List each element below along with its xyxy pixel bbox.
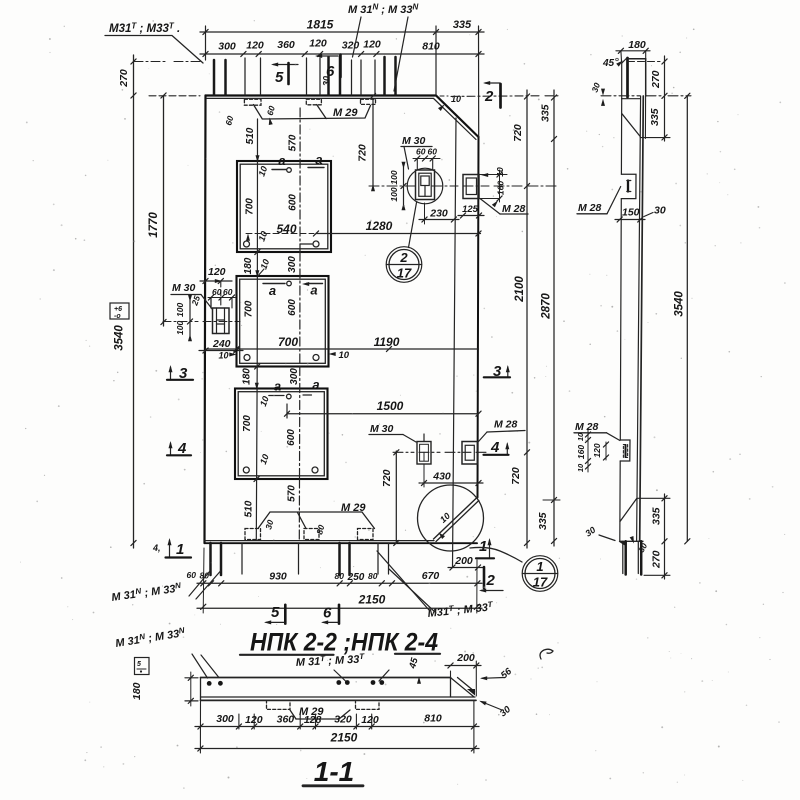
svg-text:200: 200 [456,652,475,664]
label 60 rotated right of box1 with arrow [265,105,277,125]
svg-text:4: 4 [490,439,500,456]
vertical centerline 600-series dashdot [298,108,301,540]
svg-text:570: 570 [288,134,299,151]
label 45 section [407,656,421,684]
svg-text:335: 335 [651,507,663,525]
dimension 150 30 side view [615,205,666,223]
opening square 2 [237,276,329,367]
label M28 upper right [480,199,528,216]
section mark 3 right [484,363,510,380]
svg-text:180: 180 [131,682,143,700]
svg-text:700: 700 [278,335,298,349]
centerline through M30 M28 [369,185,556,187]
svg-text:17: 17 [533,575,548,590]
svg-text:3540: 3540 [674,291,686,317]
svg-text:4,: 4, [152,543,161,553]
dimension line 335 2870 335 right [537,90,560,546]
svg-text:80: 80 [314,524,326,536]
labels between square1 and square2 [243,256,298,276]
section mark 4 left [167,440,191,457]
centerline left M30 [163,321,240,323]
section mark 5 top [271,63,298,87]
svg-text:2: 2 [484,88,494,105]
svg-text:1770: 1770 [148,212,160,238]
detail circle bottom right corner [418,485,484,551]
svg-text:M 28: M 28 [502,203,526,215]
dimension 230 [419,203,459,224]
svg-text:335: 335 [537,512,549,530]
dimension 3540 side view [674,93,690,544]
svg-text:5: 5 [275,69,284,86]
svg-text:270: 270 [118,69,130,88]
svg-text:17: 17 [397,266,412,281]
svg-text:335: 335 [453,19,472,31]
label M28 side view lower [574,421,620,441]
svg-text:30: 30 [498,704,514,720]
lower M28 embed [462,442,478,465]
svg-text:M 31N ; M 33N: M 31N ; M 33N [111,581,183,604]
section mark 2 bottom [479,567,503,593]
svg-text:128: 128 [304,714,322,726]
side view bottom edge and bars [620,541,643,574]
dimension row 300 120 360 120 320 120 810 [200,38,484,57]
svg-text:240: 240 [212,338,231,350]
rebar dots section 1-1 [207,680,384,686]
svg-text:10: 10 [451,94,461,104]
M29 anchor boxes dashed under top edge [244,99,375,105]
side view bottom slope [620,499,637,522]
section mark 3 left [167,365,193,382]
datum box symbol left [110,303,129,320]
svg-text:300: 300 [287,256,298,273]
svg-text:3540: 3540 [114,325,126,351]
svg-text:1: 1 [536,559,543,574]
dimension 180 section [131,672,198,706]
dimension 720 near square3 [381,450,399,546]
section 1-1 strip outline [201,678,477,701]
svg-text:300: 300 [216,713,234,725]
svg-text:10: 10 [258,258,271,271]
rebar bars on top edge, thin [245,58,375,95]
svg-text:10: 10 [576,432,585,441]
svg-text:M 28: M 28 [575,421,599,433]
label M31T M33T section [295,652,389,681]
svg-text:M 29: M 29 [341,502,366,514]
opening square 1 [237,161,331,252]
svg-text:M31T ; M 33T: M31T ; M 33T [427,600,495,620]
svg-text:180: 180 [242,368,253,385]
svg-text:a: a [278,153,285,168]
M29 anchor boxes dashed bottom [245,529,373,540]
dimension 200 section [445,652,481,696]
svg-text:M 29: M 29 [333,107,358,119]
label 56 section [480,666,515,682]
vertical line 700-series through squares [254,119,260,540]
svg-text:1-1: 1-1 [314,756,354,787]
svg-text:80: 80 [368,571,378,581]
svg-text:300: 300 [218,41,236,53]
svg-text:570: 570 [287,485,298,502]
svg-text:30: 30 [322,76,332,86]
svg-text:2150: 2150 [330,731,358,745]
svg-text:30: 30 [589,81,602,94]
svg-text:810: 810 [422,41,440,53]
svg-text:60: 60 [187,570,197,580]
svg-text:2870: 2870 [541,293,553,320]
dimension 1500 [284,399,481,418]
svg-text:M 28: M 28 [578,202,602,214]
dimension 2150 section [195,731,479,752]
left M30 embed plate [213,308,230,334]
M29 label section [290,706,350,719]
svg-text:600: 600 [287,299,298,316]
section mark 1 bottom right [476,538,494,558]
svg-text:60: 60 [223,287,233,297]
svg-text:180: 180 [628,39,646,51]
dimension 200 bottom right [448,555,483,570]
section mark 6 top [315,54,341,80]
M29 boxes section [267,700,380,709]
svg-text:600: 600 [286,429,297,446]
svg-text:M 30: M 30 [402,135,426,147]
svg-text:510: 510 [244,500,255,517]
panel outline main view [205,96,479,544]
svg-text:60: 60 [416,147,426,157]
label M31N M33N bottom left [111,571,221,604]
svg-text:10: 10 [258,453,271,466]
M29 callout trapezoid top [253,105,370,120]
svg-text:1: 1 [479,538,487,555]
extension lines section dims [200,700,474,753]
label M31T M33T bottom right [377,551,494,620]
svg-text:60: 60 [265,105,277,117]
level line rebar top left [134,61,203,63]
svg-text:10: 10 [256,230,269,243]
svg-text:150: 150 [622,207,640,219]
svg-text:6: 6 [323,605,332,622]
label 30 side view top [589,81,605,106]
labels between square2 and square3 [242,368,301,385]
svg-text:56: 56 [499,666,515,682]
svg-text:720: 720 [357,144,369,162]
extension lines bottom dims [203,548,477,613]
label M31N M33N section [114,626,218,678]
svg-text:M 30: M 30 [172,282,196,294]
svg-text:M31T ; M33T .: M31T ; M33T . [109,22,180,36]
chamfer label 10 top right [438,94,558,111]
section mark 1 bottom left [166,538,192,558]
svg-text:810: 810 [424,713,442,725]
svg-text:45: 45 [407,656,421,671]
svg-text:270: 270 [651,550,663,569]
dimension line 270 / 3540 far left [114,55,137,548]
svg-text:120: 120 [361,714,379,726]
upper M28 notch side view [620,174,636,440]
label M30 lower [369,423,416,442]
svg-text:100: 100 [389,187,399,201]
svg-text:80: 80 [335,571,345,581]
centerline lower M30 [393,451,487,453]
label 45 degrees side view [602,58,624,69]
dimension 1190 row [206,335,479,352]
lower M28 notch side view [620,440,630,541]
dimension row 60 80 930 80 250 80 670 [187,570,483,586]
datum box symbol section [135,658,150,675]
dimension 335 side view bottom [637,494,670,544]
side view outline [621,58,645,541]
square 3 interior [242,377,320,473]
svg-text:a: a [269,283,276,298]
label M31N M33N top [348,3,418,92]
rebar bars bottom edge thick [211,543,350,575]
svg-text:720: 720 [381,469,393,487]
svg-text:120: 120 [592,443,602,457]
svg-text:360: 360 [277,714,295,726]
svg-text:-o: -o [114,313,121,320]
svg-text:5: 5 [137,661,141,668]
svg-text:120: 120 [309,38,327,50]
svg-text:335: 335 [540,104,552,122]
lower M30 embed plate [417,434,431,464]
svg-text:2: 2 [399,250,408,265]
svg-text:120: 120 [363,39,381,51]
small check scribble [540,649,553,659]
svg-text:80: 80 [200,571,210,581]
dimension line 1770 [148,93,200,326]
svg-text:10: 10 [339,350,350,361]
svg-text:30: 30 [263,519,275,531]
svg-text:НПК 2-2 ;НПК 2-4: НПК 2-2 ;НПК 2-4 [250,629,438,657]
upper M30 embed circle [407,168,443,204]
svg-text:10: 10 [576,463,585,472]
svg-text:1280: 1280 [366,219,393,233]
svg-text:10: 10 [219,351,229,361]
label 30 side view bottom left [583,525,626,546]
section line of cut 2-2 [453,118,457,567]
svg-text:30: 30 [654,205,666,217]
svg-text:930: 930 [269,571,287,583]
svg-text:700: 700 [242,415,253,432]
label 30 section right [478,699,513,719]
label M28 lower [479,419,526,442]
dims 10 160 10 120 side view lower [576,430,609,472]
svg-text:700: 700 [244,300,255,317]
upper M30 embed plate [416,170,435,200]
dimension 180 side view top [616,39,650,61]
square 1 interior [244,152,325,247]
dims 60 60 upper M30 [413,147,440,170]
dimension row section 300 120 360 120 320 120 810 [195,713,479,730]
extension lines for top dims [206,26,479,137]
reference circle 2/17 [386,203,422,283]
M29 callout trapezoid bottom [258,502,375,529]
dimension 270 335 side view right [628,56,671,141]
svg-text:2: 2 [486,572,496,589]
svg-text:M 31N ; M 33N: M 31N ; M 33N [348,3,418,17]
square 2 interior [229,281,349,361]
svg-text:45: 45 [602,58,615,69]
svg-text:270: 270 [650,70,662,89]
svg-text:2150: 2150 [358,593,386,607]
svg-text:10: 10 [258,395,271,408]
svg-text:+6: +6 [114,306,122,313]
svg-text:2100: 2100 [514,276,526,303]
svg-text:600: 600 [288,194,299,211]
svg-text:120: 120 [208,266,226,278]
svg-text:60: 60 [223,115,235,127]
svg-text:120: 120 [246,40,264,52]
svg-text:160: 160 [576,445,586,459]
opening square 3 [235,389,328,480]
svg-text:120: 120 [245,714,263,726]
labels below square 3 [244,485,298,518]
svg-text:10: 10 [256,165,269,178]
svg-text:510: 510 [245,127,256,144]
dimension line 720 2100 720 right [510,90,530,548]
label 30 side view bottom small [630,536,650,554]
svg-text:M 28: M 28 [494,419,518,431]
svg-text:670: 670 [422,570,440,582]
label M30 upper [401,135,432,169]
title НПК 2-2 НПК 2-4 [240,629,440,657]
reference circle 1/17 [522,556,558,592]
svg-text:200: 200 [454,555,473,567]
upper M28 embed [463,175,479,199]
svg-text:180: 180 [243,257,254,274]
dimension 125 [458,204,484,218]
svg-text:335: 335 [649,108,661,126]
svg-text:1: 1 [176,541,184,558]
svg-text:320: 320 [334,714,352,726]
svg-text:a: a [315,152,322,167]
svg-text:M 31N ; M 33N: M 31N ; M 33N [114,626,186,650]
svg-text:100: 100 [389,170,399,184]
section mark 4 right [484,439,510,456]
svg-text:720: 720 [510,467,522,485]
svg-text:700: 700 [245,198,256,215]
dash-dot level line at panel top side view [601,95,691,97]
svg-text:1815: 1815 [307,18,334,32]
svg-text:M 30: M 30 [370,423,394,435]
svg-text:430: 430 [432,471,451,483]
rebar bars bottom edge thin [242,543,389,574]
dimension 1815 / 335 top row [200,18,484,35]
left M30 embed callout [171,266,235,341]
dimension 430 [419,464,483,487]
dimension 720 upper left [357,93,376,191]
svg-text:1500: 1500 [377,399,404,413]
section mark 5 bottom [264,604,285,624]
svg-text:30: 30 [583,525,597,539]
svg-text:a: a [274,379,281,394]
leader to reference circle 1/17 [470,547,522,562]
svg-text:250: 250 [347,572,365,583]
dimension 240 left [199,338,243,361]
svg-text:230: 230 [429,208,448,220]
svg-text:1190: 1190 [374,335,400,349]
svg-text:a: a [310,283,317,298]
dims 100 100 upper M30 [389,162,406,210]
dimension 1280 [246,219,481,236]
svg-text:125: 125 [462,204,479,215]
svg-text:100: 100 [175,303,185,317]
svg-text:300: 300 [289,368,300,385]
svg-text:720: 720 [512,124,524,142]
section mark 2 top [483,81,501,108]
title 1-1 [303,756,363,787]
label M31T M33T top-left [105,22,203,64]
label M28 side view upper [577,187,621,215]
svg-text:5: 5 [271,604,280,621]
svg-text:60: 60 [428,147,438,157]
section mark 6 bottom [321,605,339,625]
svg-text:360: 360 [277,39,295,51]
rebar bars on top edge, thick [214,56,396,95]
upper M28 dims 10 160 [479,167,507,207]
svg-text:160: 160 [496,181,506,195]
svg-text:a: a [312,377,319,392]
dimension 2150 bottom of main view [197,593,482,610]
dimension 270 side view bottom [644,541,670,579]
svg-text:100: 100 [175,321,185,335]
svg-text:320: 320 [342,40,360,52]
